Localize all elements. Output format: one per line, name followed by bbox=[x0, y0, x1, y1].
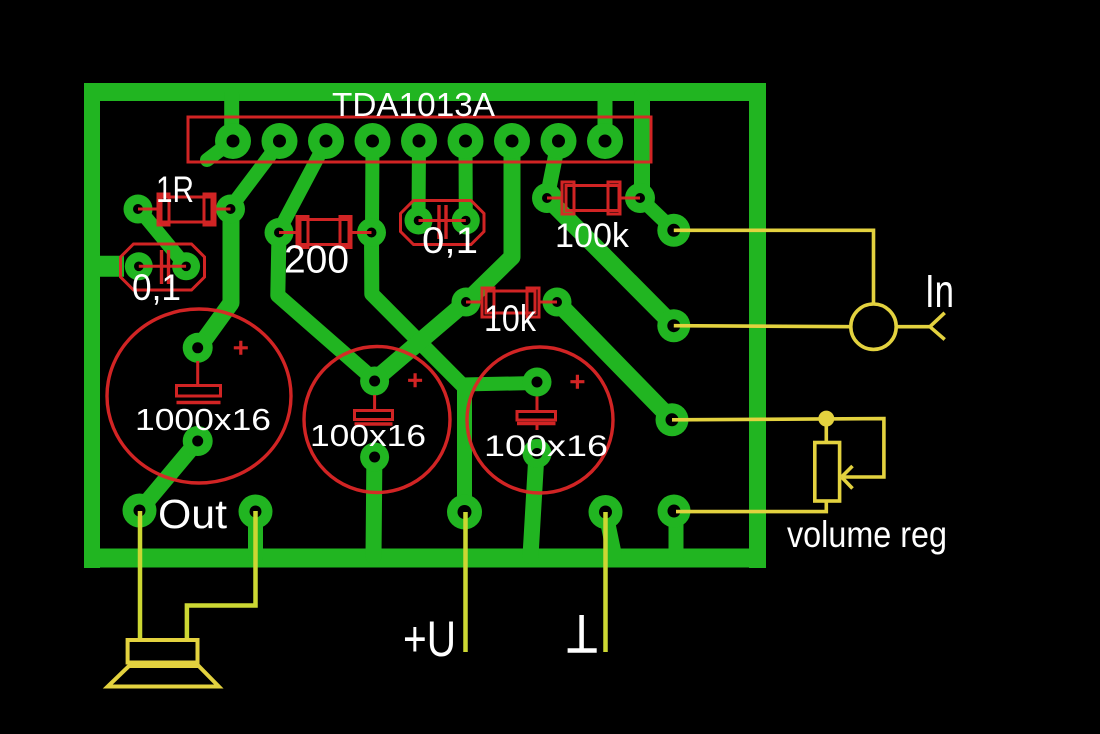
wire pin7 to R5 left pad bbox=[466, 141, 512, 302]
potentiometer RV1 body bbox=[815, 443, 840, 502]
svg-text:100k: 100k bbox=[555, 217, 630, 255]
capacitor C4 pad holes bbox=[192, 342, 203, 353]
resistor R4 pad holes bbox=[542, 193, 552, 203]
Out pad 2 bbox=[239, 495, 273, 529]
resistor R5 pad holes bbox=[461, 297, 471, 307]
capacitor C4 outline circle bbox=[107, 309, 291, 483]
wire node D stem to bottom border bbox=[669, 511, 684, 556]
wire C6 bottom pad to bottom border bbox=[531, 454, 537, 557]
svg-text:1000x16: 1000x16 bbox=[135, 402, 271, 437]
node D pad bbox=[658, 495, 691, 528]
svg-text:200: 200 bbox=[284, 239, 349, 282]
svg-text:In: In bbox=[925, 265, 954, 317]
wire top border to R4 right pad bbox=[634, 96, 650, 198]
wire node J1 to +U pad bbox=[457, 385, 472, 512]
wire pin4 to R2 right pad bbox=[365, 141, 380, 230]
capacitor C3 pad holes bbox=[414, 216, 424, 226]
wire R1 left pad to C2 right pad bbox=[139, 209, 186, 266]
ground symbol bbox=[568, 615, 597, 651]
capacitor C5 polarity symbol bbox=[355, 395, 393, 424]
op-amp U1 TDA1013A outline bbox=[188, 117, 651, 162]
resistor R5 body bbox=[466, 288, 557, 317]
svg-text:100x16: 100x16 bbox=[310, 418, 426, 453]
speaker LS1 bbox=[108, 640, 219, 687]
Out pad holes bbox=[134, 505, 146, 517]
svg-text:0,1: 0,1 bbox=[132, 267, 181, 308]
resistor R1 pad holes bbox=[133, 204, 143, 214]
pin 5 pad U1 bbox=[401, 123, 437, 159]
capacitor C4 plus mark bbox=[234, 341, 248, 355]
pin 3 pad U1 bbox=[308, 123, 344, 159]
svg-text:+U: +U bbox=[403, 611, 456, 667]
capacitor C6 polarity symbol bbox=[517, 397, 556, 431]
wire pin9 stem to top border bbox=[598, 95, 613, 141]
wire potentiometer bottom to node D bbox=[676, 501, 826, 512]
capacitor C5 pads bbox=[360, 367, 389, 396]
pin 2 pad U1 bbox=[262, 123, 298, 159]
+U pad bbox=[447, 495, 482, 530]
capacitor C5 plus mark bbox=[408, 373, 422, 387]
wire R2 left pad to C5 top pad bbox=[278, 233, 375, 381]
wire pin2 to R1 right pad bbox=[231, 144, 279, 207]
wire node A to In circle top bbox=[674, 230, 874, 305]
board outline border bottom bbox=[84, 549, 766, 568]
wire C5 bottom pad to bottom border bbox=[366, 457, 383, 556]
capacitor C2 pad holes bbox=[134, 262, 144, 272]
node B hole bbox=[667, 319, 680, 332]
wire pin1 stem to top border bbox=[224, 95, 239, 141]
node C pad bbox=[656, 403, 689, 436]
node A hole bbox=[667, 224, 680, 237]
node A pad bbox=[657, 214, 690, 247]
wire pin5 to C3 left pad bbox=[412, 141, 427, 221]
capacitor C3 pads bbox=[405, 207, 433, 235]
board outline border top bbox=[84, 83, 766, 101]
ground pad hole bbox=[599, 506, 612, 519]
resistor R5 pads bbox=[452, 288, 481, 317]
capacitor C6 outline circle bbox=[467, 347, 613, 493]
wire pin1 stub bbox=[207, 141, 232, 160]
wire Out pad2 to speaker bbox=[187, 511, 256, 640]
resistor R4 pads bbox=[532, 183, 562, 213]
wire Out pad1 to speaker bbox=[138, 511, 143, 640]
wire R4 left pad to node B bbox=[547, 198, 674, 326]
capacitor C2 outline bbox=[121, 244, 205, 290]
wire In circle right with connector fork bbox=[896, 313, 945, 340]
wire C4 bottom pad to Out pad bbox=[140, 441, 198, 511]
capacitor C6 pads bbox=[523, 368, 552, 397]
resistor R4 body bbox=[547, 182, 640, 214]
resistor R2 pad holes bbox=[274, 228, 284, 238]
wire pin8 to R4 left pad bbox=[547, 141, 559, 198]
wire node C to potentiometer wiper bbox=[672, 419, 884, 477]
capacitor C4 pads bbox=[183, 333, 213, 363]
svg-text:volume reg: volume reg bbox=[787, 514, 947, 555]
wire R5 left pad to C5 top pad bbox=[375, 302, 466, 380]
capacitor C3 outline bbox=[401, 201, 485, 245]
pin 6 pad U1 bbox=[448, 123, 484, 159]
wire R5 right pad to node C bbox=[557, 302, 672, 420]
wire pin6 to C3 right pad bbox=[459, 141, 473, 221]
wire +U pad to +U label bbox=[463, 512, 468, 652]
capacitor C5 outline circle bbox=[304, 347, 450, 493]
svg-text:1R: 1R bbox=[156, 169, 194, 210]
ground pad bbox=[589, 495, 623, 529]
board outline border left bbox=[84, 83, 100, 568]
+U pad hole bbox=[458, 505, 472, 519]
svg-text:TDA1013A: TDA1013A bbox=[332, 86, 495, 123]
svg-text:Out: Out bbox=[158, 491, 228, 537]
resistor R1 pads bbox=[124, 195, 153, 224]
In source circle bbox=[851, 304, 896, 349]
pin 7 pad U1 bbox=[494, 123, 530, 159]
capacitor C6 plus mark bbox=[570, 375, 584, 389]
wire R2 right pad to node J1 bbox=[372, 233, 464, 387]
wire left border stub to C2 bbox=[97, 256, 124, 277]
junction dot volume wiring bbox=[818, 411, 834, 427]
wire R1 right pad to C4 top pad bbox=[198, 209, 231, 349]
board outline border right bbox=[749, 83, 766, 568]
node C hole bbox=[666, 413, 679, 426]
svg-text:100x16: 100x16 bbox=[484, 430, 608, 463]
wire Out2 pad stem to bottom border bbox=[248, 512, 263, 557]
resistor R2 body bbox=[279, 217, 372, 248]
node D hole bbox=[668, 505, 681, 518]
resistor R1 body bbox=[138, 194, 231, 225]
potentiometer wiper arrow bbox=[842, 466, 853, 489]
svg-text:0,1: 0,1 bbox=[422, 220, 478, 261]
wire ground pad to ground symbol bbox=[603, 512, 608, 652]
node B pad bbox=[657, 309, 690, 342]
pin 4 pad U1 bbox=[355, 123, 391, 159]
resistor R2 pads bbox=[265, 218, 294, 247]
wire R4 right pad to node A bbox=[640, 198, 674, 230]
Out pad 1 bbox=[123, 494, 157, 528]
pin 9 pad U1 bbox=[587, 123, 623, 159]
svg-text:10k: 10k bbox=[484, 298, 536, 339]
pin 1 pad U1 bbox=[215, 123, 251, 159]
pin 8 pad U1 bbox=[541, 123, 577, 159]
capacitor C5 pad holes bbox=[369, 376, 380, 387]
wire junction dot to potentiometer top bbox=[824, 424, 828, 443]
pin holes U1 bbox=[227, 135, 240, 148]
capacitor C2 pads bbox=[125, 252, 153, 280]
wire node B to In circle left bbox=[674, 326, 851, 327]
wire pin3 to R2 left pad bbox=[280, 144, 326, 230]
wire node J1 to C6 top pad bbox=[462, 383, 537, 385]
capacitor C4 polarity symbol bbox=[177, 361, 221, 403]
capacitor C6 pad holes bbox=[532, 377, 543, 388]
wire ground pad stub to bottom border bbox=[606, 512, 615, 553]
